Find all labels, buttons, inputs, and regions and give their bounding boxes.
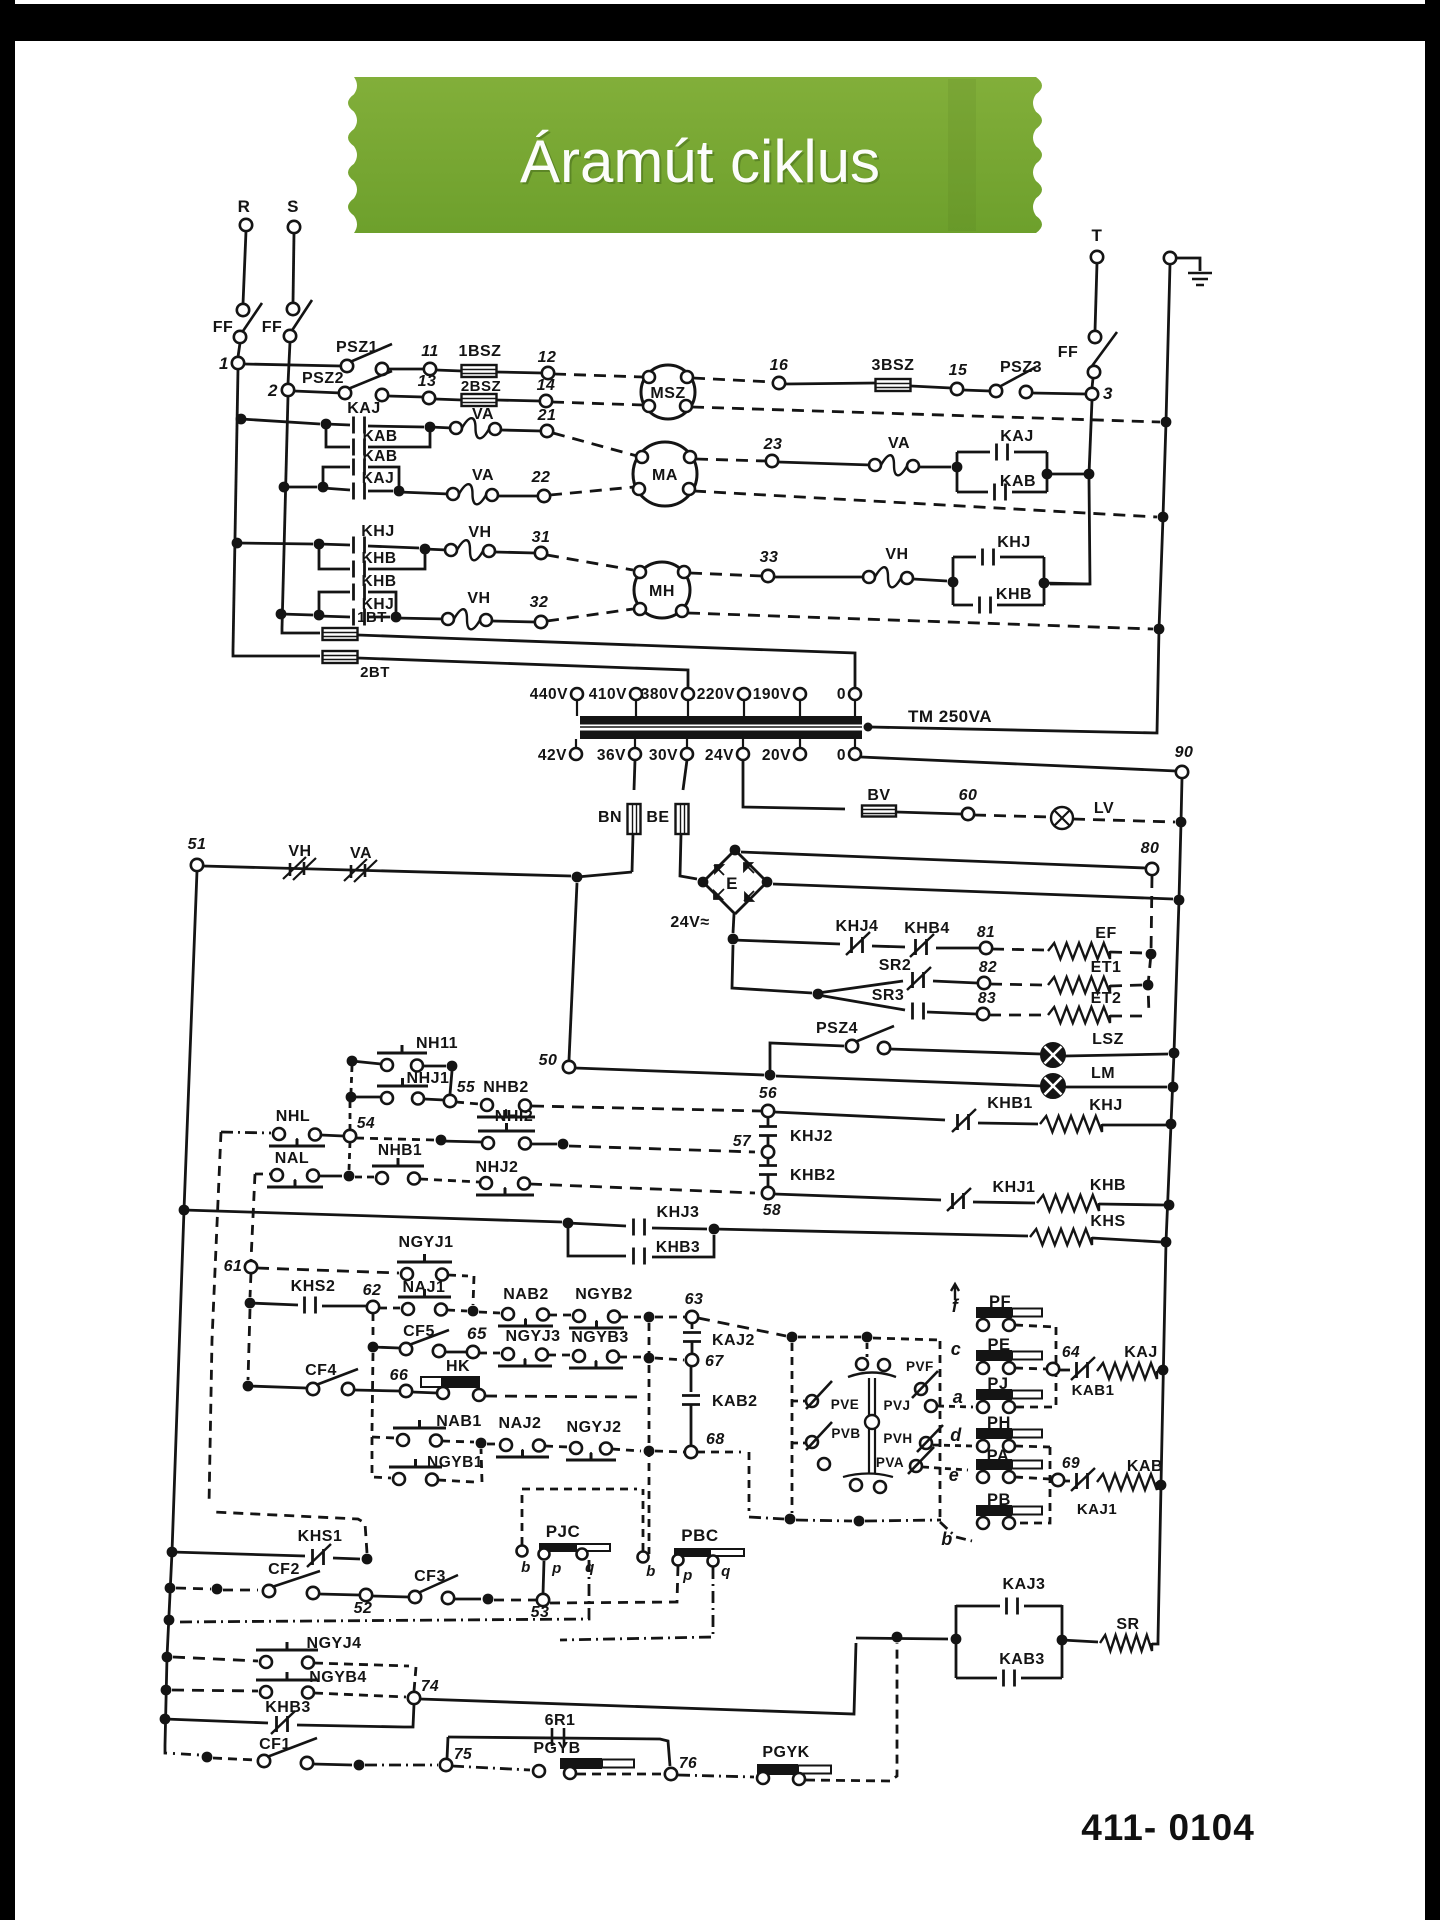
wire to NAB2 (dashed) (479, 1312, 500, 1313)
wire NGYJ3 to NGYB3 (dashed) (548, 1354, 571, 1357)
svg-text:12: 12 (538, 349, 557, 366)
svg-text:FF: FF (213, 319, 234, 336)
svg-text:81: 81 (977, 924, 995, 941)
junction row32 left (314, 610, 325, 621)
wire 66 to HK (412, 1392, 437, 1393)
node 55 (444, 1095, 456, 1107)
svg-text:57: 57 (733, 1133, 752, 1150)
wire PVA to e row (dashed) (923, 1467, 968, 1470)
node 60 (962, 808, 974, 820)
wire PBC q down (dash-dot) (560, 1567, 713, 1640)
wire 51 row to BN (577, 872, 632, 877)
svg-text:TM 250VA: TM 250VA (908, 707, 992, 726)
svg-text:380V: 380V (641, 686, 679, 703)
wire parallel out (MH) (1044, 583, 1090, 584)
switch PSZ4 (846, 1040, 858, 1052)
svg-text:LV: LV (1094, 800, 1114, 817)
relay coil KAJ (1097, 1363, 1157, 1379)
wire rowA from left bus (184, 1210, 562, 1222)
node 3 (1086, 388, 1098, 400)
wire PSZ1 to 11 (388, 368, 424, 371)
svg-text:VA: VA (472, 467, 494, 484)
svg-text:1: 1 (219, 354, 229, 373)
contact KHS2 (305, 1297, 316, 1314)
wire 74 to KAJ3 block (420, 1643, 856, 1714)
wire 54 down to NAL row (dashed) (349, 1142, 350, 1170)
svg-text:MA: MA (652, 467, 678, 484)
junction KHS2 row (245, 1298, 256, 1309)
node 68 (685, 1446, 697, 1458)
wire 22 to MA (dashed) (550, 487, 634, 495)
junction PV top right (862, 1332, 873, 1343)
wire 68 right (dashed) (697, 1451, 741, 1454)
wire S bus vertical (282, 396, 288, 628)
wire SR2 to 82 (933, 981, 977, 983)
contact KAB (row22) (354, 459, 365, 476)
svg-text:KAJ: KAJ (1000, 428, 1034, 445)
wire SR2 branch (818, 981, 903, 993)
wire PBC p down (dashed) (550, 1566, 678, 1603)
junction row22 left (318, 482, 329, 493)
wire NGYJ1 corner down (dashed) (473, 1276, 474, 1305)
switch PSZ3 (990, 385, 1002, 397)
wire MH return (dashed) (688, 613, 1153, 629)
wire 58 row to KHJ1 (774, 1194, 941, 1200)
cam shaft double bar (869, 1378, 875, 1474)
svg-text:p: p (682, 1567, 693, 1584)
wire KAJ1 to KAB coil (1064, 1480, 1070, 1483)
node 75 (440, 1759, 452, 1771)
overload VA (row22) (447, 488, 459, 500)
switch FF (R) blade (241, 303, 262, 334)
svg-text:PH: PH (987, 1414, 1011, 1432)
wire 60 to lamp LV (dashed) (974, 815, 1050, 817)
junction parallel right (MA) (1042, 469, 1053, 480)
wire dc minus down (732, 945, 812, 993)
svg-text:31: 31 (532, 529, 551, 546)
limit switch PB (976, 1505, 1012, 1516)
wire row21 to KAJ (326, 424, 350, 425)
junction b bus left (785, 1514, 796, 1525)
wire 36V to fuse BN (634, 760, 635, 790)
wire KAJ to junction (368, 426, 424, 427)
svg-text:d: d (950, 1425, 962, 1445)
wire KHB branch right (row31) (368, 549, 425, 569)
ground terminal (1164, 252, 1176, 264)
wire KHB3 right (297, 1704, 414, 1727)
junction 90 bus KHJ coil (1166, 1119, 1177, 1130)
wire VA to 21 (501, 430, 541, 431)
wire row22 to KAJ (323, 488, 350, 490)
svg-text:NHB1: NHB1 (378, 1142, 422, 1159)
bridge top corner junction (730, 845, 741, 856)
wire NH block right vertical (450, 1071, 452, 1094)
fuse 2BSZ (462, 394, 497, 406)
wire 57 to KHB2 (767, 1158, 770, 1165)
node 69 (1052, 1474, 1064, 1486)
pushbutton NGYJ2 (570, 1442, 582, 1454)
wire PGYK to KAJ3 block (dashed) (806, 1643, 897, 1781)
wire PA right to 69 (dashed) (1015, 1477, 1050, 1479)
wire BN down to 51 row (632, 834, 633, 872)
wire PE right to 64 (dashed) (1015, 1368, 1046, 1369)
pushbutton NAJ1 (402, 1303, 414, 1315)
svg-text:VA: VA (888, 435, 910, 452)
wire KHS coil to 90 bus (1092, 1238, 1161, 1242)
wire CF5 to 65 (445, 1351, 466, 1354)
resistor 6R1 row (448, 1737, 670, 1766)
svg-text:PVE: PVE (831, 1397, 860, 1412)
svg-text:33: 33 (760, 549, 779, 566)
svg-text:13: 13 (418, 373, 437, 390)
node 2 (282, 384, 294, 396)
wire 54 to NHJ1 vertical (dashed) (349, 1102, 352, 1130)
pushbutton NHL (273, 1128, 285, 1140)
relay coil SR (1100, 1635, 1152, 1651)
wire 56 to KHJ2 (767, 1117, 770, 1126)
wire 67 to KAB2 (690, 1366, 693, 1392)
svg-text:KHB: KHB (1090, 1177, 1126, 1194)
svg-text:NAL: NAL (275, 1150, 309, 1167)
svg-text:24V≈: 24V≈ (670, 914, 709, 931)
wire 50 drop (569, 883, 577, 1060)
svg-text:KHB: KHB (361, 573, 396, 590)
transformer secondary taps 42V 36V 30V 24V 20V 0 (570, 748, 582, 760)
overload VA (row23) (869, 459, 881, 471)
contact KHJ (row31) (354, 537, 365, 554)
svg-text:PSZ2: PSZ2 (302, 370, 344, 387)
junction parallel left (MA) (952, 462, 963, 473)
wire NGYB4 feed (dashed) (172, 1690, 258, 1691)
contact KHB (MH hold) (980, 597, 991, 614)
wire KHS1 bypass (dashed) (214, 1512, 367, 1553)
cam contact PVJ (915, 1383, 927, 1395)
wire VA to parallel (919, 466, 951, 469)
cam contact PVF (856, 1358, 868, 1370)
contact KAJ2 (683, 1333, 701, 1342)
wire 11 to fuse 1BSZ (436, 370, 462, 371)
node 15 (951, 383, 963, 395)
wire CF1 feed 2 (dashed) (213, 1758, 256, 1760)
wire KHJ coil to 90 bus (1102, 1124, 1166, 1127)
junction CF4 row (243, 1381, 254, 1392)
contact KHS1 NC (313, 1549, 324, 1565)
contact KHJ2 (759, 1127, 777, 1136)
svg-text:3BSZ: 3BSZ (872, 357, 915, 374)
junction parallel left (MH) (948, 577, 959, 588)
node 64 (1047, 1363, 1059, 1375)
wire HK right (dashed) (485, 1396, 645, 1397)
wire 82 to heater ET1 (dashed) (990, 984, 1044, 985)
wire row22 to VA (399, 492, 449, 494)
wire NGYJ4 right (dashed) (314, 1663, 409, 1666)
wire NAL-61 bus vertical (dashed) (251, 1174, 255, 1260)
wire PVE feed (dashed) (792, 1400, 805, 1403)
contact VH NC (51 row) (290, 862, 304, 876)
wire MSZ to 16 (dashed) (693, 378, 773, 382)
wire NAJ1 right (dashed) (447, 1310, 467, 1311)
node 11 (424, 363, 436, 375)
svg-text:KHB: KHB (996, 586, 1032, 603)
limit switch PF (976, 1307, 1012, 1318)
junction S bus row32 (276, 609, 287, 620)
wire KAB branch right (row22) (368, 467, 399, 491)
wire PSZ3 to node 3 (1032, 393, 1086, 394)
motor MSZ (641, 365, 695, 419)
fuse BN (628, 804, 641, 834)
node 62 (367, 1301, 379, 1313)
wire 81 to heater EF (dashed) (992, 949, 1044, 950)
wire row32 from S bus (281, 614, 313, 615)
wire bridge bottom down (733, 914, 734, 933)
svg-text:20V: 20V (762, 747, 791, 764)
wire FF to node 3 (1092, 378, 1093, 388)
junction CF1 feed (202, 1752, 213, 1763)
cam bottom contacts (850, 1479, 862, 1491)
contact KAJ3 (1007, 1598, 1018, 1615)
wire PVH to d row (dashed) (933, 1445, 973, 1446)
wire PV top to letters box (dashed) (873, 1338, 940, 1340)
wire 50 row to LM (575, 1068, 764, 1075)
wire LV to 90 bus (dashed) (1073, 819, 1175, 822)
page frame top black bar (15, 4, 1425, 41)
pushbutton NGYB2 (573, 1310, 585, 1322)
wire 12 to MSZ (dashed) (554, 374, 643, 377)
junction 51 row / 50 drop (572, 872, 583, 883)
contact KHJ (MH hold) (983, 549, 994, 566)
svg-text:ET1: ET1 (1091, 959, 1122, 976)
junction KHJ3/KHB3 right (709, 1224, 720, 1235)
svg-text:190V: 190V (753, 686, 791, 703)
wire PSZ2 to 13 (388, 396, 423, 397)
svg-text:KAJ1: KAJ1 (1077, 1501, 1117, 1518)
switch FF (T) upper terminal (1089, 331, 1101, 343)
svg-text:60: 60 (959, 787, 978, 804)
lamp LM (1041, 1074, 1065, 1098)
junction dc minus (728, 934, 739, 945)
fuse BE (676, 804, 689, 834)
wire KHJ4 to KHB4 (872, 946, 905, 947)
wire CF3 right (454, 1598, 481, 1601)
wire KHB2 to 58 (767, 1175, 770, 1187)
wire row31 to KHJ (319, 544, 350, 545)
junction rowA split (563, 1218, 574, 1229)
wire 68 corner down (dashed) (748, 1452, 751, 1511)
contact KAB3 (1004, 1670, 1015, 1687)
wire KHB4 to 81 (936, 947, 979, 950)
svg-text:PA: PA (987, 1447, 1010, 1465)
contact KHB1 NC (958, 1114, 969, 1130)
junction 90 bus KHB coil (1164, 1200, 1175, 1211)
wire CF2 to 52 (319, 1594, 359, 1595)
wire 61 down (dashed) (250, 1273, 251, 1297)
node 32 (535, 616, 547, 628)
wire PVF drop (dashed) (866, 1343, 869, 1357)
svg-text:KHJ: KHJ (997, 534, 1031, 551)
svg-text:52: 52 (354, 1600, 373, 1617)
svg-text:NGYB2: NGYB2 (575, 1286, 633, 1303)
wire row31 from R bus (237, 543, 313, 544)
svg-text:EF: EF (1095, 925, 1116, 942)
wire BE down to bridge (680, 834, 697, 879)
transformer core terminal dot (864, 723, 873, 732)
junction row32 right (391, 612, 402, 623)
svg-text:NHL: NHL (276, 1108, 310, 1125)
svg-text:PE: PE (987, 1336, 1010, 1354)
switch CF5 (400, 1343, 412, 1355)
svg-text:ET2: ET2 (1091, 990, 1122, 1007)
wire 62 to NAJ1 (dashed) (379, 1307, 400, 1310)
wire node3 bus to MH output (1050, 479, 1090, 584)
svg-text:p: p (551, 1560, 562, 1577)
wire node 3 bus down (1089, 400, 1092, 474)
svg-text:64: 64 (1062, 1344, 1080, 1361)
svg-text:1BSZ: 1BSZ (459, 343, 502, 360)
wire 3BSZ to 15 (911, 386, 951, 388)
svg-text:PSZ4: PSZ4 (816, 1020, 858, 1037)
svg-text:23: 23 (763, 436, 783, 453)
wire KHS2 row (250, 1303, 298, 1305)
wire parallel box (MA) (956, 452, 959, 492)
svg-text:0: 0 (837, 686, 846, 703)
wire 24V to fuse BV (743, 760, 845, 809)
pushbutton NHJ1 (381, 1092, 393, 1104)
wire 52 to CF3 (372, 1596, 408, 1597)
svg-text:PVH: PVH (883, 1431, 912, 1446)
svg-text:LSZ: LSZ (1092, 1031, 1124, 1048)
wire LSZ to 90 bus (1065, 1054, 1168, 1056)
svg-text:KAJ3: KAJ3 (1003, 1576, 1046, 1593)
fuse BV (862, 806, 896, 817)
svg-text:22: 22 (531, 469, 551, 486)
wire NHJ1 to 55 (424, 1099, 444, 1100)
junction row31 left (314, 539, 325, 550)
node 57 (762, 1146, 774, 1158)
svg-text:11: 11 (421, 343, 439, 360)
junction NAB1/NAJ2 (476, 1438, 487, 1449)
pushbutton NAL (271, 1169, 283, 1181)
svg-text:PJC: PJC (546, 1522, 581, 1541)
svg-text:63: 63 (685, 1291, 704, 1308)
svg-text:440V: 440V (530, 686, 568, 703)
wire 83 to heater ET2 (dashed) (989, 1014, 1044, 1017)
limit switch PJ (976, 1389, 1012, 1400)
drum switch PJC (539, 1543, 576, 1552)
transformer primary taps 440V 410V 380V 220V 190V 0 (571, 688, 583, 700)
wire to ground symbol (1176, 258, 1200, 271)
wire PSZ4 to lamp LSZ (890, 1049, 1041, 1054)
svg-text:NGYB3: NGYB3 (571, 1329, 629, 1346)
wire CF4 to 66 (354, 1390, 399, 1391)
wire ET1 to 80 bus (dashed) (1110, 985, 1142, 986)
wire 13 to fuse 2BSZ (435, 399, 462, 400)
contact KHB3 (parallel) (634, 1248, 645, 1265)
wire ground bus vertical (870, 264, 1170, 733)
wire 63 row to PV (dashed) (698, 1318, 786, 1336)
wire bridge top to node 80 (741, 852, 1146, 868)
cam shaft pivot circle (865, 1415, 879, 1429)
junction KHS1 right (362, 1554, 373, 1565)
wire KHB branch left (row32) (319, 592, 350, 615)
wire NHI2 to 57 (dashed) (569, 1146, 755, 1152)
wire NGYB3 right (dashed) (619, 1356, 641, 1359)
wire 1BT to transformer 0 tap (358, 635, 855, 688)
junction KAJ3 box left (951, 1634, 962, 1645)
wire 68 feed (dashed) (655, 1451, 684, 1452)
svg-text:62: 62 (363, 1282, 382, 1299)
svg-text:6R1: 6R1 (545, 1712, 576, 1729)
svg-text:61: 61 (224, 1258, 243, 1275)
wire KHS2 to 62 (322, 1305, 366, 1308)
node 67 (686, 1354, 698, 1366)
wire BV to 60 (896, 812, 961, 814)
pushbutton NAB1 (397, 1434, 409, 1446)
motor MH (634, 562, 690, 618)
junction CF5 row (368, 1342, 379, 1353)
svg-text:CF2: CF2 (268, 1561, 300, 1578)
junction row21 left (321, 419, 332, 430)
wire NGYJ2 right (dashed) (612, 1449, 641, 1451)
switch CF1 (258, 1755, 270, 1767)
svg-text:90: 90 (1175, 744, 1194, 761)
wire 62 bus corner to NAB1 (dashed) (372, 1437, 395, 1438)
contact KAJ1 NC (1077, 1473, 1088, 1489)
wire CF2 feed (dashed) (176, 1588, 211, 1589)
svg-text:c: c (951, 1339, 962, 1359)
svg-text:NHB2: NHB2 (483, 1079, 529, 1096)
svg-text:58: 58 (763, 1202, 781, 1219)
fuse 1BSZ (462, 365, 497, 377)
junction NH11 right (447, 1061, 458, 1072)
wire parallel out (MA) (1047, 473, 1086, 476)
wire NHL to 54 (321, 1135, 343, 1136)
wire KHB3 branch right (652, 1235, 714, 1257)
wire FF to node 2 (288, 342, 290, 384)
node 21 (541, 425, 553, 437)
junction NGYJ2/68 row (644, 1446, 655, 1457)
svg-text:b: b (941, 1529, 953, 1549)
wire SR3 to 83 (927, 1012, 976, 1014)
junction 90 bus LSZ (1169, 1048, 1180, 1059)
svg-text:T: T (1092, 226, 1103, 245)
wire 56 row to KHB1 (774, 1112, 945, 1120)
svg-text:1BT: 1BT (357, 609, 387, 626)
terminal R (240, 219, 252, 231)
wire PJC q down (dash-dot) (176, 1560, 589, 1622)
junction 90 bus LV (1176, 817, 1187, 828)
pushbutton NAJ2 (500, 1439, 512, 1451)
svg-text:KAJ2: KAJ2 (712, 1332, 755, 1349)
wire KAJ2 to 67 (691, 1342, 694, 1354)
wire SR3 branch (818, 995, 905, 1010)
junction 80 bus EF (1146, 949, 1157, 960)
wire MSZ return (dashed) (692, 407, 1160, 422)
pushbutton NGYJ4 (260, 1656, 272, 1668)
wire b bus bottom 2 (dash-dot) (796, 1520, 852, 1521)
wire 33 to VH (774, 576, 865, 579)
svg-text:NGYB4: NGYB4 (309, 1669, 367, 1686)
wire 90 bus vertical (1158, 778, 1182, 1640)
wire 2BSZ to 14 (496, 400, 540, 401)
wire CF1 feed (dash-dot) (165, 1745, 200, 1755)
svg-text:VA: VA (350, 845, 372, 862)
node 16 (773, 377, 785, 389)
wire VA to 22 (498, 495, 538, 498)
svg-text:51: 51 (188, 836, 207, 853)
svg-text:KHB3: KHB3 (265, 1699, 311, 1716)
switch CF4 (307, 1383, 319, 1395)
wire 14 to MSZ (dashed) (552, 402, 643, 405)
